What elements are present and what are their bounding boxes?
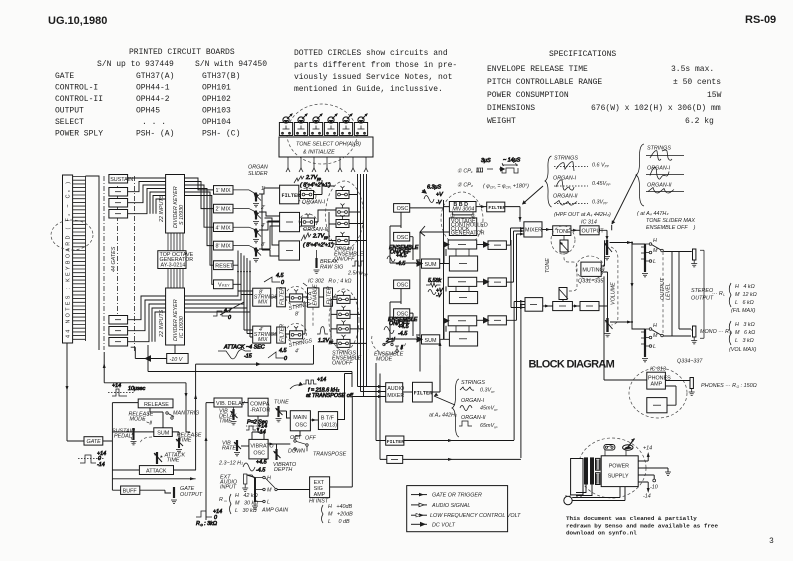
svg-text:RATE: RATE	[222, 446, 236, 452]
wire vibrato to main osc	[268, 443, 290, 445]
svg-text:+14: +14	[112, 383, 121, 389]
8' strings mix box	[253, 288, 271, 306]
chassis box	[571, 459, 583, 495]
wire switch to ext amp	[278, 489, 310, 491]
svg-text:mentioned in Guide, inclussive: mentioned in Guide, inclussive.	[294, 85, 443, 94]
wire BBD to filter	[476, 206, 487, 208]
svg-text:ENVELOPE RELEASE TIME: ENVELOPE RELEASE TIME	[487, 65, 588, 74]
-10 output	[638, 475, 654, 479]
ensemble waveform lower with mode switch	[383, 317, 418, 352]
svg-text:MAIN: MAIN	[293, 415, 307, 421]
svg-text:IC 10930: IC 10930	[179, 316, 185, 338]
strings ensemble gate 4	[337, 335, 350, 348]
wire delay bus verticals	[444, 200, 447, 339]
svg-text:at A₄ 442H z: at A₄ 442H z	[429, 413, 457, 419]
svg-text:DOTTED CIRCLES show circuits a: DOTTED CIRCLES show circuits and	[294, 49, 448, 58]
post stage box 2	[488, 278, 506, 287]
BBD box	[449, 202, 476, 212]
tone box	[553, 226, 571, 236]
strings ensemble gate 2	[337, 306, 350, 319]
wire branch down from upper volume node	[631, 243, 633, 323]
svg-text:ORGAN-II: ORGAN-II	[553, 194, 578, 200]
wire post boxes to mixer bus	[506, 228, 524, 320]
keyboard contact comb	[73, 176, 86, 341]
svg-text:4.5: 4.5	[279, 348, 287, 354]
delay stage box 1	[448, 240, 477, 249]
wire switch to jacks	[664, 252, 692, 337]
svg-text:22 INPUTS: 22 INPUTS	[159, 194, 165, 223]
brace right chart	[636, 144, 644, 206]
stereo jack upper	[691, 249, 697, 267]
transformer core	[584, 457, 600, 484]
svg-text:S/N with 947450: S/N with 947450	[195, 60, 267, 69]
audio mixer box	[386, 383, 403, 402]
power supply box	[601, 456, 638, 487]
amp gain resistor ladder	[254, 478, 256, 503]
svg-text:3.5s max.: 3.5s max.	[671, 65, 714, 74]
svg-text:10μsec: 10μsec	[128, 386, 146, 392]
svg-text:SUPPLY: SUPPLY	[608, 473, 629, 479]
svg-text:(4013): (4013)	[321, 423, 337, 429]
dashed circle tone control	[551, 226, 575, 254]
brace mid chart	[545, 156, 552, 207]
label IC302 pointer	[303, 283, 307, 286]
wire bus cells to divider keyer 2	[128, 296, 166, 342]
pulse annotation top	[108, 383, 146, 396]
wire TF up	[338, 374, 345, 420]
lower filter box	[386, 436, 404, 445]
fuse 2 / pilot	[623, 439, 635, 456]
svg-text:(HPF OUT at A₄ 442H z): (HPF OUT at A₄ 442H z)	[554, 212, 611, 218]
organ gate Y organ-I	[301, 186, 314, 199]
vibrato osc box	[249, 439, 268, 459]
junction dots	[631, 242, 633, 244]
svg-text:. . .: . . .	[142, 118, 166, 127]
VCA control dashed wire	[312, 307, 314, 328]
svg-text:INPUT: INPUT	[220, 485, 237, 491]
svg-text:L 0 dB: L 0 dB	[328, 519, 350, 525]
organ gate Y organ-II	[302, 214, 315, 227]
svg-text:ATTACK ~4 SEC: ATTACK ~4 SEC	[223, 345, 265, 351]
svg-text:44 GATES: 44 GATES	[111, 246, 117, 272]
gate output resistor	[173, 487, 175, 498]
attack time pot	[154, 452, 163, 464]
strings gate Y 4'	[290, 326, 303, 339]
resistor ladder lower	[641, 329, 648, 362]
Vkey box	[214, 280, 234, 289]
svg-text:PITCH CONTROLLABLE RANGE: PITCH CONTROLLABLE RANGE	[487, 78, 602, 87]
switch lower H M L	[645, 323, 663, 350]
svg-text:OSC: OSC	[397, 283, 409, 289]
svg-text:-14: -14	[643, 494, 651, 500]
svg-text:TUNE: TUNE	[274, 400, 289, 406]
tone pot 1	[279, 114, 292, 136]
mid waveform chart	[452, 379, 498, 437]
wire fan keyer2 to strings bus	[185, 290, 251, 312]
svg-text:H 4 kΩ: H 4 kΩ	[735, 284, 755, 290]
waveform chart mid	[522, 156, 611, 219]
wire attack right riser	[174, 469, 197, 471]
svg-text:CONTROL-II: CONTROL-II	[55, 95, 103, 104]
svg-text:GTH37(A): GTH37(A)	[136, 72, 174, 81]
tone pot below	[560, 240, 568, 252]
svg-text:IC 313: IC 313	[650, 367, 666, 373]
1' MIX box	[214, 186, 234, 195]
organ ensemble gate 3	[336, 215, 349, 228]
svg-text:AUDIO: AUDIO	[387, 386, 404, 392]
2' MIX box	[214, 204, 234, 213]
organ ensemble gate 4	[336, 232, 349, 245]
svg-text:H 3 kΩ: H 3 kΩ	[735, 322, 755, 328]
gate cell 6	[109, 338, 128, 347]
vibrato section	[205, 374, 354, 526]
svg-text:(FIL MAX): (FIL MAX)	[731, 308, 756, 314]
svg-text:+4.5: +4.5	[398, 324, 410, 330]
wire tone to output	[571, 229, 580, 231]
main vertical audio bus	[358, 174, 367, 397]
svg-text:6.3μS: 6.3μS	[427, 185, 441, 191]
svg-text:H +40dB: H +40dB	[328, 504, 353, 510]
svg-text:at TRANSPOSE off: at TRANSPOSE off	[306, 393, 353, 399]
label RL values	[712, 283, 757, 314]
osc box 1	[394, 204, 410, 213]
svg-text:-14: -14	[97, 462, 105, 468]
svg-text:-15: -15	[244, 354, 253, 360]
svg-text:+4.5: +4.5	[396, 253, 408, 259]
svg-text:L 3 kΩ: L 3 kΩ	[735, 338, 754, 344]
svg-text:DC VOLT: DC VOLT	[432, 522, 456, 528]
sawtooth waveform top	[264, 273, 284, 286]
wire keyboard bottom to gate	[67, 343, 84, 441]
osc box 4	[394, 309, 410, 318]
svg-text:This document was cleaned & pa: This document was cleaned & partially	[566, 515, 697, 522]
svg-text:OPH44-2: OPH44-2	[136, 95, 170, 104]
svg-text:MODE: MODE	[376, 357, 393, 363]
wire organ sliders to filter bus	[259, 188, 280, 249]
dashed circle phones	[629, 368, 687, 418]
svg-text:redrawn by Senso and made avai: redrawn by Senso and made available as f…	[566, 522, 718, 529]
svg-text:OSC: OSC	[397, 235, 409, 241]
wire sum1 to stages	[440, 245, 450, 264]
wire TOG to keyer2 bus	[168, 269, 183, 289]
wire buffer loop	[665, 386, 676, 405]
svg-text:AMP: AMP	[314, 492, 326, 498]
gate cell 2	[109, 199, 128, 208]
p=2sec waveform	[246, 420, 268, 436]
svg-text:download on synfo.nl: download on synfo.nl	[566, 530, 637, 537]
svg-text:RELEASE: RELEASE	[144, 402, 169, 408]
wire mixer to tone	[542, 229, 553, 231]
gates dash-dot columns	[104, 176, 135, 352]
transformer bottom wiring	[576, 485, 592, 496]
delay stage box 6	[449, 332, 477, 346]
svg-text:R in: R in	[219, 497, 227, 503]
svg-text:① CP₁: ① CP₁	[457, 169, 473, 175]
svg-text:M +20dB: M +20dB	[328, 512, 353, 518]
credit text	[566, 515, 718, 537]
gate pulse 4.7 annotation	[213, 308, 232, 321]
wire envelope lower riser	[112, 478, 195, 480]
annotation pointer to bus	[220, 302, 244, 315]
tone select output arrows	[288, 157, 366, 168]
wire fan keyer1 to mix boxes	[185, 178, 214, 284]
dashed circle highlight on keyboard	[51, 220, 93, 250]
svg-text:L: L	[267, 500, 270, 506]
svg-text:OPH45: OPH45	[136, 107, 160, 116]
delay stage box 5	[448, 316, 477, 326]
wire bus cells to divider keyer 1	[128, 178, 166, 214]
wire gates line to release feed	[104, 352, 186, 399]
organ mixer box 2	[279, 241, 300, 260]
wire into lower blank	[380, 374, 387, 460]
stereo bracket	[700, 250, 704, 338]
buff box	[121, 486, 140, 494]
strings ensemble gate 1	[337, 291, 350, 304]
dashed circle ensemble mode	[372, 336, 406, 354]
svg-text:OUTPUT: OUTPUT	[180, 492, 203, 498]
clock pins	[452, 212, 473, 215]
label mono values	[700, 321, 757, 353]
svg-text:S/N up to 937449: S/N up to 937449	[97, 60, 174, 69]
wire strings ensemble outputs to bus	[350, 299, 367, 343]
wire bus into organ mixer boxes	[262, 194, 280, 256]
4' MIX box	[214, 223, 234, 232]
svg-text:HI INST: HI INST	[309, 499, 329, 505]
wire vib delay to comparator	[242, 402, 248, 404]
T/F box	[318, 412, 337, 430]
svg-text:STRINGS: STRINGS	[461, 380, 485, 386]
wire sum2 to stages	[440, 321, 450, 340]
wire mixer to filter	[403, 391, 413, 393]
clock annotation cp1 cp2	[457, 169, 529, 190]
sum output net	[132, 432, 152, 444]
svg-text:RESET: RESET	[215, 264, 234, 270]
svg-text:± 50 cents: ± 50 cents	[673, 78, 721, 87]
wire keyboard top to gates bus	[86, 176, 100, 351]
svg-text:FILTER: FILTER	[387, 439, 404, 445]
attack envelope annotation	[218, 345, 265, 360]
svg-text:-4.5: -4.5	[398, 331, 408, 337]
legend audio signal	[411, 504, 427, 506]
wire osc3 osc4 to sum2	[390, 289, 422, 340]
svg-text:SUM: SUM	[157, 430, 169, 436]
svg-text:STRINGS: STRINGS	[647, 146, 671, 152]
square wave symbol ensemble	[352, 261, 364, 266]
svg-text:ORGAN-I: ORGAN-I	[302, 200, 326, 206]
svg-text:M: M	[653, 248, 658, 254]
tone pot 5	[339, 114, 352, 136]
svg-text:OUTPUT: OUTPUT	[55, 107, 84, 116]
svg-text:OPH44-1: OPH44-1	[136, 84, 170, 93]
dashed ellipse strings ensemble	[329, 289, 359, 351]
-14 output	[638, 482, 648, 490]
svg-text:AMP GAIN: AMP GAIN	[261, 508, 288, 514]
comparator box	[248, 398, 268, 416]
wire main osc to TF	[310, 419, 318, 421]
8' MIX box	[214, 241, 234, 250]
svg-text:SPECIFICATIONS: SPECIFICATIONS	[549, 50, 616, 59]
wire jack to switch	[247, 475, 255, 478]
svg-text:RS-09: RS-09	[745, 14, 776, 26]
svg-text:PSH- (A): PSH- (A)	[136, 130, 174, 139]
svg-text:IC 302 R o ; 4 kΩ: IC 302 R o ; 4 kΩ	[308, 279, 352, 285]
svg-text:WEIGHT: WEIGHT	[487, 117, 516, 126]
wire keyer area to mixer bus	[148, 345, 352, 387]
svg-text:M 12 kΩ: M 12 kΩ	[735, 292, 757, 298]
svg-text:-4.5: -4.5	[256, 468, 266, 474]
svg-text:TONE SLIDER MAX: TONE SLIDER MAX	[646, 218, 695, 224]
wire into phones amp	[604, 276, 647, 380]
svg-text:OPH103: OPH103	[202, 107, 231, 116]
svg-text:H: H	[653, 323, 657, 329]
organ slider pot 1'	[233, 186, 266, 207]
svg-text:ORGAN-I: ORGAN-I	[461, 398, 485, 404]
clock wire to VCCG	[452, 214, 472, 216]
wire transpose to main osc	[295, 431, 300, 440]
svg-text:-14: -14	[258, 430, 266, 436]
svg-text:ORGAN-II: ORGAN-II	[303, 227, 328, 233]
wire riser to vib delay	[206, 403, 214, 520]
tone pot 6	[354, 114, 367, 136]
gate waveform annotation	[78, 451, 106, 468]
svg-text:5.58k: 5.58k	[428, 278, 441, 284]
sawtooth waveform bottom	[268, 348, 287, 362]
organ filter box	[280, 185, 299, 204]
resistor annotation mid	[426, 278, 444, 299]
svg-text:ORGAN-I: ORGAN-I	[553, 176, 577, 182]
svg-text:BLOCK DIAGRAM: BLOCK DIAGRAM	[529, 359, 615, 371]
wire lower filter to bus	[404, 440, 514, 442]
organ mixer box 1	[280, 212, 300, 231]
svg-text:PEDAL: PEDAL	[114, 434, 132, 440]
wire lower path	[543, 305, 608, 307]
svg-text:3μS: 3μS	[481, 158, 491, 164]
phones amp box	[647, 372, 666, 389]
wire box to pot lower	[562, 300, 564, 302]
brace mid-low chart	[452, 379, 459, 437]
svg-text:PRINTED CIRCUIT BOARDS: PRINTED CIRCUIT BOARDS	[129, 48, 235, 57]
output section	[542, 220, 757, 362]
wire mixer1 to organ-II gate	[300, 210, 336, 222]
wire 4' strings chain	[271, 302, 305, 334]
filter box after BBD	[487, 202, 505, 212]
arrow chart to filter	[434, 396, 455, 405]
amp gain values	[322, 504, 354, 525]
svg-text:FILTER: FILTER	[414, 390, 434, 396]
svg-text:OUTPUT: OUTPUT	[691, 296, 714, 302]
wires into audio mixer	[352, 387, 385, 397]
svg-text:GATE: GATE	[87, 439, 102, 445]
wire osc1 osc2 to sum1	[390, 212, 422, 263]
output box	[580, 226, 599, 235]
dashed circle muting	[576, 256, 604, 280]
vib delay box	[214, 398, 242, 407]
svg-text:1' MIX: 1' MIX	[216, 188, 232, 194]
main osc box	[290, 411, 310, 431]
svg-text:3: 3	[769, 537, 774, 546]
lower path box 2	[580, 302, 599, 311]
svg-text:M: M	[267, 488, 272, 494]
sum box env	[154, 428, 173, 437]
svg-text:0.6 VPP: 0.6 VPP	[592, 163, 610, 169]
svg-text:ATTACK: ATTACK	[146, 469, 167, 475]
divider keyer U4 bottom	[166, 288, 185, 345]
strings filter 4'	[277, 327, 286, 343]
organ slider pot 8'	[233, 242, 266, 262]
switch upper H M L	[645, 238, 663, 265]
waveform chart right	[612, 144, 696, 231]
junction arrows on strings bus	[237, 271, 251, 274]
dashed circle strings gate 8'	[286, 287, 307, 306]
svg-text:65mVpp: 65mVpp	[480, 423, 498, 429]
vcc input wire	[416, 232, 449, 372]
strings section	[103, 174, 367, 470]
svg-text:+14: +14	[643, 446, 652, 452]
svg-text:GTH37(B): GTH37(B)	[202, 72, 240, 81]
svg-text:GATE: GATE	[55, 72, 74, 81]
dashed circle organ gates II	[299, 214, 317, 230]
wire stage2 links	[456, 249, 469, 332]
svg-text:22 INPUTS: 22 INPUTS	[159, 309, 165, 338]
man trig switch	[166, 412, 168, 414]
specifications table	[487, 50, 722, 126]
svg-text:( 8'+4'+2'+1'): ( 8'+4'+2'+1')	[300, 183, 331, 189]
phones jack	[689, 378, 695, 396]
svg-text:IC 314: IC 314	[581, 220, 597, 226]
svg-text:2' MIX: 2' MIX	[216, 207, 232, 213]
clock pulse drawing	[476, 158, 521, 174]
osc box 3	[394, 280, 410, 289]
muting box	[581, 262, 601, 276]
fuse 1	[604, 445, 615, 456]
svg-text:AUDIO SIGNAL: AUDIO SIGNAL	[431, 503, 470, 509]
sustain box	[109, 175, 128, 184]
waveform 1.2Vpp at VCA	[317, 327, 333, 345]
svg-text:DEPTH: DEPTH	[274, 467, 292, 473]
power supply section	[564, 438, 671, 505]
svg-text:& INITIALIZE: & INITIALIZE	[303, 150, 335, 156]
stereo jack lower	[691, 326, 697, 344]
top octave generator U3	[158, 251, 186, 269]
wire gate network	[103, 403, 138, 491]
svg-text:MIX: MIX	[258, 300, 268, 306]
svg-text:SUM: SUM	[425, 262, 437, 268]
legend box	[407, 486, 521, 532]
svg-text:UG.10,1980: UG.10,1980	[48, 15, 107, 27]
svg-text:ORGAN-I: ORGAN-I	[647, 166, 671, 172]
4' strings mix box	[253, 326, 271, 343]
dashed circle organ gates I	[298, 188, 316, 204]
mixer box	[524, 222, 542, 237]
svg-text:VOLUME: VOLUME	[611, 282, 617, 305]
sum box 2	[422, 335, 440, 344]
organ ensemble gate 1	[336, 186, 349, 199]
svg-text:2.3~12 H z: 2.3~12 H z	[218, 461, 243, 467]
sum box 1	[422, 259, 440, 268]
svg-text:SUM: SUM	[425, 338, 437, 344]
wire comparator down to vibrato	[257, 416, 259, 432]
tone pot 2	[294, 114, 307, 136]
strings ensemble gate 3	[337, 320, 350, 333]
gate box	[84, 437, 103, 445]
wire filter to organ-I gate	[299, 180, 335, 195]
svg-text:OSC: OSC	[295, 423, 307, 429]
svg-text:L: L	[653, 344, 656, 350]
svg-text:MONO ··· R O: MONO ··· R O	[700, 329, 733, 335]
svg-text:STRINGS: STRINGS	[554, 156, 578, 162]
resistor break	[315, 258, 317, 268]
divider keyer U2 top	[166, 175, 185, 234]
